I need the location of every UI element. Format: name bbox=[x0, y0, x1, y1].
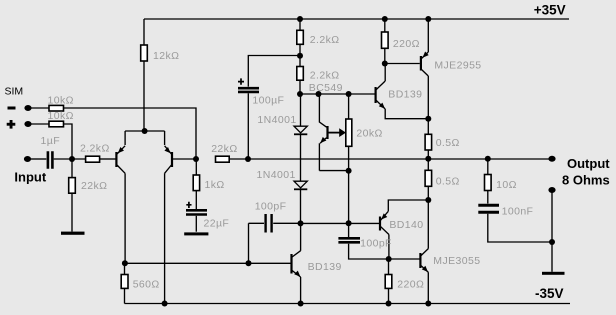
transistor Q2 right diff pair bbox=[171, 152, 173, 167]
node bias column / BD140 base bbox=[346, 220, 352, 226]
wire Q2 emitter drop bbox=[164, 131, 166, 145]
capacitor 22uF bbox=[186, 210, 207, 214]
svg-text:SIM: SIM bbox=[5, 85, 24, 97]
wire Q2 collector bbox=[164, 173, 166, 303]
svg-text:12kΩ: 12kΩ bbox=[153, 50, 179, 62]
svg-text:22µF: 22µF bbox=[204, 218, 230, 230]
node zobel tap bbox=[485, 156, 491, 162]
wire plus to input node bbox=[64, 124, 73, 159]
svg-text:10kΩ: 10kΩ bbox=[48, 94, 74, 106]
svg-text:BD139: BD139 bbox=[308, 261, 342, 273]
svg-text:+35V: +35V bbox=[534, 3, 566, 18]
svg-text:10kΩ: 10kΩ bbox=[48, 110, 74, 122]
svg-text:22kΩ: 22kΩ bbox=[81, 180, 107, 192]
resistor 1k feedback bbox=[195, 159, 197, 209]
resistor 10 zobel bbox=[487, 159, 489, 204]
svg-text:BC549: BC549 bbox=[309, 82, 343, 94]
transistor BD140 bbox=[379, 217, 381, 231]
resistor 2.2k lower bbox=[297, 67, 304, 81]
diode 1N4001 lower bbox=[294, 181, 307, 188]
svg-text:100pF: 100pF bbox=[255, 201, 287, 213]
svg-text:BD139: BD139 bbox=[388, 89, 422, 101]
svg-text:100nF: 100nF bbox=[502, 206, 534, 218]
svg-text:20kΩ: 20kΩ bbox=[356, 128, 382, 140]
output terminal bbox=[548, 156, 555, 162]
capacitor 100pF second bbox=[338, 238, 360, 242]
wire minus input bbox=[31, 107, 49, 109]
svg-text:Output: Output bbox=[567, 156, 610, 171]
capacitor 100pF miller bbox=[249, 222, 301, 224]
resistor 10k upper bbox=[49, 105, 64, 111]
wire feedback from 10k to right base bbox=[64, 108, 197, 159]
transistor MJE2955 bbox=[420, 56, 422, 71]
node output bbox=[425, 156, 431, 162]
svg-text:220Ω: 220Ω bbox=[393, 38, 420, 50]
wire 12k column bbox=[143, 19, 145, 131]
node bootstrap tap bbox=[245, 156, 251, 162]
node input junction bbox=[69, 156, 75, 162]
svg-text:0.5Ω: 0.5Ω bbox=[436, 137, 460, 149]
svg-text:2.2kΩ: 2.2kΩ bbox=[310, 34, 340, 46]
resistor 12k bbox=[141, 45, 148, 61]
ground feedback bbox=[184, 232, 208, 235]
input terminal bbox=[24, 156, 31, 162]
node bootstrap mid bbox=[297, 53, 303, 59]
resistor 22k feedback bbox=[216, 156, 230, 162]
svg-text:2.2kΩ: 2.2kΩ bbox=[310, 70, 340, 82]
node top rail 2.2k bbox=[297, 16, 303, 22]
wire bias rail bbox=[300, 93, 375, 95]
node feedback bbox=[193, 156, 199, 162]
resistor 0.5 bottom bbox=[427, 159, 429, 200]
svg-text:220Ω: 220Ω bbox=[397, 278, 424, 290]
resistor 10k lower bbox=[49, 121, 64, 127]
svg-text:0.5Ω: 0.5Ω bbox=[436, 176, 460, 188]
node bottom driver junction bbox=[425, 197, 431, 203]
svg-text:1N4001: 1N4001 bbox=[257, 114, 296, 126]
transistor BC549 bbox=[319, 94, 326, 127]
plus terminal bbox=[7, 123, 16, 126]
resistor 560 bbox=[124, 263, 126, 303]
resistor 2.2k input bbox=[86, 156, 100, 162]
svg-text:560Ω: 560Ω bbox=[133, 278, 160, 290]
svg-text:MJE3055: MJE3055 bbox=[433, 255, 480, 267]
ground speaker bbox=[542, 272, 565, 275]
node tail junction bbox=[125, 130, 165, 132]
wire 2.2k to Q1 base bbox=[100, 158, 116, 160]
transistor MJE3055 bbox=[419, 253, 421, 268]
capacitor 1uF bbox=[48, 151, 53, 168]
transistor BD139 top driver bbox=[375, 87, 377, 103]
wire Q1 emitter drop bbox=[124, 131, 126, 145]
resistor 2.2k upper bbox=[299, 19, 301, 67]
resistor 0.5 top bbox=[427, 119, 429, 159]
node MJE3055 base line bbox=[386, 256, 392, 262]
transistor BD139 VAS bbox=[290, 254, 292, 274]
wire 2.2k lower to bias node bbox=[299, 80, 301, 94]
resistor 220 bottom bbox=[388, 259, 390, 304]
diode 1N4001 upper bbox=[300, 94, 302, 126]
svg-text:100pF: 100pF bbox=[360, 238, 392, 250]
-35V rail bbox=[125, 303, 571, 305]
wire Q1 collector bbox=[124, 173, 126, 263]
transistor Q1 left diff pair bbox=[115, 152, 117, 167]
svg-text:1kΩ: 1kΩ bbox=[205, 179, 225, 191]
+35V rail bbox=[144, 18, 569, 20]
potentiometer 20k body bbox=[348, 94, 350, 171]
svg-text:22kΩ: 22kΩ bbox=[211, 143, 237, 155]
svg-text:1µF: 1µF bbox=[41, 135, 61, 147]
svg-text:-35V: -35V bbox=[535, 286, 564, 301]
svg-text:BD140: BD140 bbox=[389, 219, 423, 231]
wire VAS base line bbox=[124, 262, 291, 264]
svg-text:2.2kΩ: 2.2kΩ bbox=[80, 143, 110, 155]
svg-text:1N4001: 1N4001 bbox=[257, 169, 296, 181]
potentiometer 20k wiper bbox=[329, 132, 341, 134]
wire 22uF to ground bbox=[195, 216, 197, 232]
speaker return terminal bbox=[548, 187, 555, 193]
resistor 220 top bbox=[384, 19, 386, 64]
svg-text:MJE2955: MJE2955 bbox=[434, 60, 481, 72]
ground input shunt bbox=[61, 232, 85, 235]
minus terminal bbox=[8, 107, 16, 110]
wire input to cap bbox=[31, 158, 46, 160]
wire output line bbox=[229, 158, 552, 160]
svg-text:10Ω: 10Ω bbox=[496, 179, 517, 191]
capacitor 100nF bbox=[478, 205, 499, 212]
wire BD140 base bbox=[301, 222, 380, 224]
wire Q2 base to node bbox=[172, 158, 196, 160]
svg-text:100µF: 100µF bbox=[252, 95, 284, 107]
node MJE2955 base bbox=[382, 61, 388, 67]
capacitor 100uF bootstrap bbox=[248, 56, 300, 160]
resistor 22k input shunt bbox=[71, 159, 73, 232]
node BC549 emitter / pot bottom bbox=[319, 170, 348, 172]
wire cap to 2.2k bbox=[54, 158, 86, 160]
svg-text:8 Ohms: 8 Ohms bbox=[562, 173, 610, 188]
wire plus input bbox=[31, 123, 49, 125]
node driver/output junction top bbox=[425, 116, 431, 122]
svg-text:Input: Input bbox=[14, 170, 46, 185]
